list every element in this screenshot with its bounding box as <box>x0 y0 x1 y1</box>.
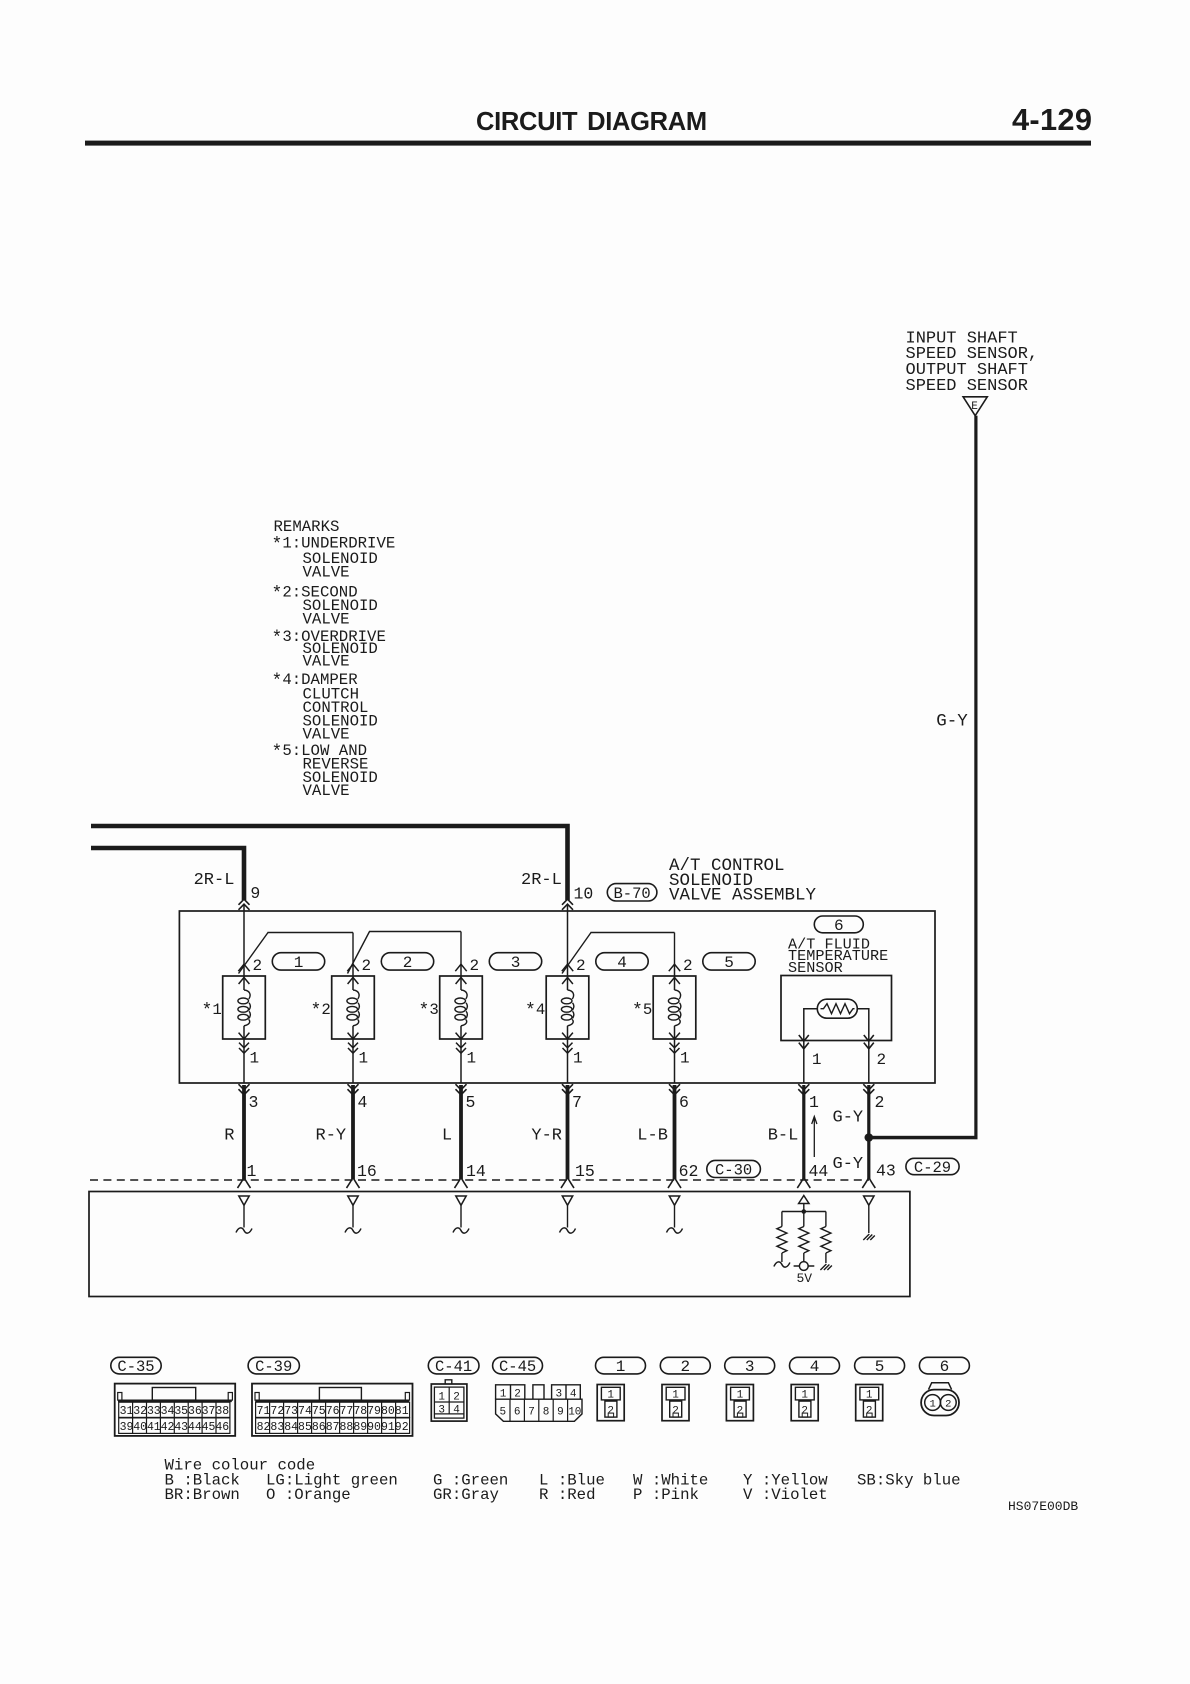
svg-text:2: 2 <box>362 957 372 975</box>
svg-text:6: 6 <box>834 917 844 935</box>
wire stub pin 15 <box>567 1206 569 1228</box>
svg-text:1: 1 <box>500 1388 507 1400</box>
wire stub pin 14 <box>460 1206 462 1228</box>
svg-text:1: 1 <box>616 1358 626 1376</box>
svg-text:16: 16 <box>357 1162 377 1181</box>
wire drop into solenoid *2 <box>352 933 354 967</box>
svg-text:E: E <box>971 401 978 413</box>
continuation squiggle pin 62 <box>667 1228 683 1233</box>
harness wire L (pin 5 to ECU pin 14) <box>459 1085 463 1179</box>
svg-text:1: 1 <box>929 1399 935 1411</box>
svg-text:8: 8 <box>543 1407 550 1419</box>
svg-text:G-Y: G-Y <box>833 1109 864 1128</box>
svg-text:5: 5 <box>499 1407 506 1419</box>
wire bus solenoid *4 to *5 <box>591 932 675 934</box>
connector capsule 3 (bottom row) <box>725 1357 775 1376</box>
ECU input triangle pin 15 <box>562 1196 572 1205</box>
connector capsule 6 <box>814 916 863 935</box>
svg-text:R-Y: R-Y <box>316 1127 347 1146</box>
svg-text:10: 10 <box>574 885 594 904</box>
svg-text:5: 5 <box>724 954 734 972</box>
wire 2R-L feed to pin 10 (top horizontal) <box>91 826 568 900</box>
svg-text:Y-R: Y-R <box>531 1127 562 1146</box>
svg-text:2: 2 <box>514 1388 521 1400</box>
harness wire R (pin 3 to ECU pin 1) <box>242 1085 246 1179</box>
connector symbol 1 pinout <box>597 1385 624 1421</box>
connector C-41 pinout <box>431 1380 467 1421</box>
svg-text:L: L <box>442 1127 452 1146</box>
header rule <box>85 141 1091 146</box>
svg-text:VALVE: VALVE <box>303 563 350 581</box>
harness wire B-L (sensor pin 1 to ECU pin 44) <box>802 1085 805 1179</box>
ECU input triangle pin 1 <box>239 1196 249 1205</box>
connector capsule 6 (bottom row) <box>919 1357 969 1376</box>
svg-text:*2: *2 <box>311 1001 331 1022</box>
svg-text:1: 1 <box>250 1050 260 1068</box>
wire mid branch down <box>803 1212 805 1227</box>
wire stub pin 16 <box>352 1206 354 1228</box>
svg-text:4: 4 <box>810 1358 820 1376</box>
thermistor RT1 <box>817 999 857 1018</box>
ECU input triangle pin 43 <box>864 1196 874 1205</box>
harness wire G-Y (sensor pin 2 to ECU pin 43) <box>867 1085 870 1179</box>
wire G-Y vertical from speed sensors <box>974 416 977 1139</box>
wire diagonal from solenoid *4 node <box>562 933 591 974</box>
A/T fluid temperature sensor label <box>788 936 888 978</box>
svg-text:9: 9 <box>557 1407 564 1419</box>
svg-text:2: 2 <box>877 1051 887 1069</box>
svg-text:3940414243444546: 3940414243444546 <box>120 1421 230 1434</box>
solenoid *1 underdrive solenoid valve U1 <box>223 964 266 1084</box>
svg-text:3: 3 <box>249 1093 259 1112</box>
svg-text:8283848586878889909192: 8283848586878889909192 <box>257 1421 409 1434</box>
svg-text:3132333435363738: 3132333435363738 <box>120 1405 230 1418</box>
wire bus solenoid *1 to *2 <box>268 932 354 934</box>
svg-text:1: 1 <box>812 1051 822 1069</box>
svg-text:2: 2 <box>875 1093 885 1112</box>
ECU connector boundary dashed line <box>90 1179 869 1181</box>
svg-text:B-L: B-L <box>768 1127 799 1146</box>
connector capsule 2 <box>381 953 433 972</box>
wire R2 to 5V source <box>803 1253 805 1262</box>
connector B-70 capsule <box>607 884 657 903</box>
svg-text:1: 1 <box>359 1050 369 1068</box>
svg-text:7172737475767778798081: 7172737475767778798081 <box>257 1405 409 1418</box>
A/T control solenoid valve assembly label <box>669 856 817 906</box>
svg-text:CIRCUIT DIAGRAM: CIRCUIT DIAGRAM <box>476 108 707 136</box>
continuation squiggle pin 16 <box>345 1228 361 1233</box>
svg-text:9: 9 <box>250 884 260 903</box>
connector capsule 5 <box>703 953 755 972</box>
svg-text:*1: *1 <box>202 1001 222 1022</box>
svg-text:5: 5 <box>466 1093 476 1112</box>
svg-text:6: 6 <box>514 1407 521 1419</box>
5V supply symbol <box>794 1262 815 1271</box>
junction dot G-Y <box>865 1133 874 1142</box>
connector C-39 pinout <box>252 1384 413 1436</box>
svg-text:C-30: C-30 <box>715 1161 752 1179</box>
connector capsule 4 <box>596 953 648 972</box>
svg-text:4: 4 <box>617 954 627 972</box>
solenoid *2 second solenoid valve U2 <box>332 964 375 1084</box>
svg-text:G-Y: G-Y <box>833 1155 864 1174</box>
svg-text:5: 5 <box>875 1358 885 1376</box>
connector capsule 4 (bottom row) <box>790 1357 840 1376</box>
connector C-41 capsule <box>428 1357 479 1376</box>
svg-text:44: 44 <box>809 1162 829 1181</box>
junction dot node 44 <box>802 1209 807 1214</box>
wire drop into solenoid *3 <box>460 932 462 967</box>
chevron pin 10 entering assembly <box>562 899 573 910</box>
wire bus solenoid *2 to *3 <box>369 931 461 933</box>
connector symbol 3 pinout <box>726 1385 753 1421</box>
svg-text:4: 4 <box>453 1405 460 1417</box>
wire colour code legend <box>165 1457 961 1505</box>
connector C-45 pinout <box>496 1385 582 1422</box>
connector E (speed sensor) <box>963 397 987 416</box>
wire thermistor to sensor pin 1 <box>804 1009 818 1041</box>
harness wire L-B (pin 6 to ECU pin 62) <box>673 1085 677 1179</box>
svg-text:R: R <box>224 1127 234 1146</box>
solenoid *4 damper clutch control solenoid valve U4 <box>546 964 589 1084</box>
connector C-39 capsule <box>248 1357 299 1376</box>
connector C-35 capsule <box>111 1357 161 1376</box>
wire diagonal from solenoid *1 node <box>239 933 269 974</box>
wire from pin 9 to solenoid *1 <box>243 905 245 966</box>
svg-text:VALVE: VALVE <box>303 610 350 628</box>
wire thermistor to sensor pin 2 <box>857 1009 869 1041</box>
connector capsule 2 (bottom row) <box>660 1357 710 1376</box>
connector C-30 capsule <box>707 1160 761 1179</box>
svg-text:1: 1 <box>247 1162 257 1181</box>
wire R1 bottom <box>781 1253 783 1262</box>
chevrons sensor pin 2 <box>864 1035 874 1049</box>
svg-text:7: 7 <box>572 1093 582 1112</box>
direction arrow up (B-L wire) <box>812 1117 817 1158</box>
svg-text:REMARKS: REMARKS <box>274 518 340 536</box>
svg-text:C-29: C-29 <box>914 1159 951 1177</box>
svg-text:HS07E00DB: HS07E00DB <box>1008 1499 1078 1514</box>
svg-text:3: 3 <box>511 954 521 972</box>
ECU input triangle pin 62 <box>669 1196 679 1205</box>
svg-text:O :Orange: O :Orange <box>266 1486 351 1504</box>
svg-text:2: 2 <box>253 957 263 975</box>
connector C-45 capsule <box>493 1357 543 1376</box>
solenoid *3 overdrive solenoid valve U3 <box>440 964 483 1084</box>
wire right branch down <box>825 1212 827 1227</box>
svg-text:62: 62 <box>679 1162 699 1181</box>
svg-text:15: 15 <box>575 1162 595 1181</box>
ground (R3) <box>820 1264 832 1270</box>
wire drop into solenoid *5 <box>674 933 676 967</box>
A/T fluid temperature sensor box <box>781 976 892 1041</box>
svg-text:BR:Brown: BR:Brown <box>165 1486 240 1504</box>
wire pin 43 to ground <box>868 1206 870 1234</box>
input/output shaft speed sensor label <box>906 329 1039 396</box>
connector symbol 6 pinout (round) <box>921 1383 959 1416</box>
connector C-29 capsule <box>906 1158 959 1177</box>
svg-text:C-35: C-35 <box>117 1358 154 1376</box>
wire pin 44 to node <box>803 1204 805 1212</box>
svg-text:VALVE: VALVE <box>303 782 350 800</box>
connector symbol 4 pinout <box>791 1385 818 1421</box>
svg-text:3: 3 <box>745 1358 755 1376</box>
solenoid *5 low and reverse solenoid valve U5 <box>653 964 696 1084</box>
svg-text:*5: *5 <box>632 1001 652 1022</box>
svg-text:4: 4 <box>570 1388 577 1400</box>
ECU input triangle pin 14 <box>456 1196 466 1205</box>
harness wire Y-R (pin 7 to ECU pin 15) <box>566 1085 570 1179</box>
wire stub pin 1 <box>243 1206 245 1228</box>
continuation squiggle R1 <box>774 1262 790 1267</box>
svg-text:7: 7 <box>528 1407 535 1419</box>
svg-text:2: 2 <box>945 1399 951 1411</box>
chevron pin 9 entering assembly <box>239 899 250 910</box>
svg-text:VALVE ASSEMBLY: VALVE ASSEMBLY <box>669 886 817 906</box>
svg-text:5V: 5V <box>797 1271 813 1286</box>
svg-text:14: 14 <box>466 1162 486 1181</box>
connector symbol 5 pinout <box>856 1385 883 1421</box>
wire G-Y horizontal into node at pin 43 wire <box>867 1136 977 1140</box>
svg-text:P :Pink: P :Pink <box>633 1486 699 1504</box>
svg-text:2: 2 <box>680 1358 690 1376</box>
continuation squiggle pin 1 <box>236 1228 252 1233</box>
svg-text:SB:Sky blue: SB:Sky blue <box>857 1472 961 1490</box>
svg-text:C-45: C-45 <box>499 1358 536 1376</box>
svg-text:2R-L: 2R-L <box>521 871 562 890</box>
connector capsule 5 (bottom row) <box>855 1357 905 1376</box>
svg-text:4-129: 4-129 <box>1012 102 1092 137</box>
svg-text:2R-L: 2R-L <box>194 871 235 890</box>
wire sensor pin 2 down <box>868 1041 870 1084</box>
svg-text:2: 2 <box>683 957 693 975</box>
A/T control solenoid valve assembly box B-70 <box>179 911 935 1083</box>
svg-text:G-Y: G-Y <box>936 712 968 732</box>
svg-text:SPEED SENSOR: SPEED SENSOR <box>906 377 1028 396</box>
svg-text:R :Red: R :Red <box>539 1486 595 1504</box>
svg-text:1: 1 <box>680 1050 690 1068</box>
continuation squiggle pin 14 <box>453 1228 469 1233</box>
wire from pin 10 to solenoid *4 <box>567 905 569 966</box>
connector C-35 pinout <box>115 1384 236 1436</box>
svg-text:*4: *4 <box>525 1001 545 1022</box>
svg-text:2: 2 <box>470 957 480 975</box>
svg-text:GR:Gray: GR:Gray <box>433 1486 499 1504</box>
wire diagonal from solenoid *2 node <box>348 932 370 974</box>
svg-text:SENSOR: SENSOR <box>788 959 843 977</box>
svg-text:*3: *3 <box>419 1001 439 1022</box>
svg-text:1: 1 <box>438 1392 445 1404</box>
connector capsule 1 (bottom row) <box>596 1357 646 1376</box>
svg-text:2: 2 <box>453 1392 460 1404</box>
wire stub pin 62 <box>674 1206 676 1228</box>
connector capsule 3 <box>489 953 541 972</box>
svg-text:1: 1 <box>467 1050 477 1068</box>
wire 2R-L feed to pin 9 <box>91 848 244 900</box>
ECU box <box>89 1192 910 1297</box>
svg-text:3: 3 <box>555 1388 562 1400</box>
resistor R3 (right to ground) <box>821 1227 831 1254</box>
wire node bus horizontal <box>782 1211 826 1213</box>
wire R3 to ground <box>825 1253 827 1263</box>
svg-text:6: 6 <box>940 1358 950 1376</box>
svg-text:1: 1 <box>294 954 304 972</box>
svg-text:2: 2 <box>576 957 586 975</box>
wire left branch down <box>781 1212 783 1227</box>
continuation squiggle pin 15 <box>560 1228 576 1233</box>
svg-text:6: 6 <box>679 1093 689 1112</box>
connector capsule 1 <box>272 953 324 972</box>
wire sensor pin 1 down <box>803 1041 805 1084</box>
svg-text:1: 1 <box>573 1050 583 1068</box>
ECU output triangle pin 44 <box>799 1196 809 1204</box>
svg-text:B-70: B-70 <box>613 885 650 903</box>
ground (pin 43) <box>863 1234 875 1240</box>
svg-text:43: 43 <box>876 1162 896 1181</box>
svg-text:1: 1 <box>809 1093 819 1112</box>
svg-text:V :Violet: V :Violet <box>743 1486 828 1504</box>
svg-text:VALVE: VALVE <box>303 653 350 671</box>
ECU input triangle pin 16 <box>348 1196 358 1205</box>
connector symbol 2 pinout <box>662 1385 689 1421</box>
svg-text:L-B: L-B <box>637 1127 668 1146</box>
svg-text:C-39: C-39 <box>255 1358 292 1376</box>
svg-text:10: 10 <box>568 1407 581 1419</box>
chevrons sensor pin 1 <box>799 1035 809 1049</box>
svg-text:4: 4 <box>358 1093 368 1112</box>
svg-text:3: 3 <box>438 1405 445 1417</box>
resistor R1 (left pull) <box>777 1227 787 1254</box>
svg-text:VALVE: VALVE <box>303 726 350 744</box>
svg-text:C-41: C-41 <box>435 1358 472 1376</box>
svg-text:2: 2 <box>403 954 413 972</box>
resistor R2 (mid to 5V) <box>799 1227 809 1254</box>
harness wire R-Y (pin 4 to ECU pin 16) <box>351 1085 355 1179</box>
remarks legend <box>272 518 396 800</box>
